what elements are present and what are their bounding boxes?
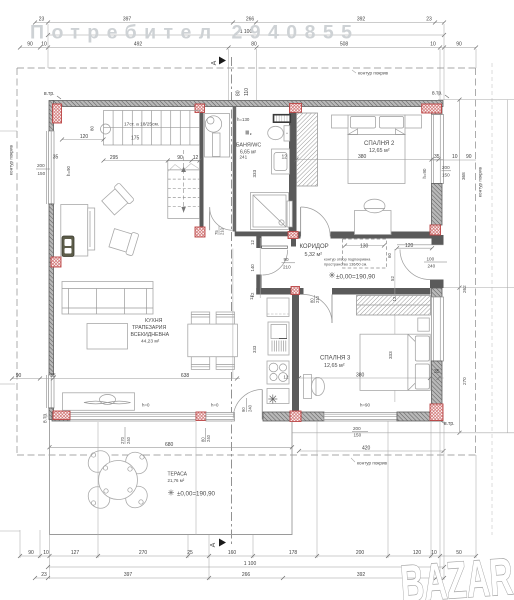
door bedroom2 arc xyxy=(301,207,331,237)
dimension row 2 top: 1 100 xyxy=(46,29,446,37)
svg-text:110: 110 xyxy=(244,88,250,96)
dining chairs xyxy=(191,312,234,369)
kitchen cooktop xyxy=(267,361,289,384)
svg-text:200: 200 xyxy=(37,163,45,168)
svg-text:±0,00=190,90: ±0,00=190,90 xyxy=(336,274,376,281)
svg-text:35: 35 xyxy=(434,369,440,375)
svg-text:200: 200 xyxy=(356,550,365,556)
dim line bedroom3 xyxy=(299,377,444,379)
svg-text:333: 333 xyxy=(252,345,257,353)
svg-text:80: 80 xyxy=(310,298,315,303)
neighbour grid lines right xyxy=(438,99,514,101)
column top stair xyxy=(195,104,205,113)
desk bedroom2 xyxy=(355,211,392,235)
attic opening dashed rect xyxy=(343,239,387,268)
asterisk mark xyxy=(268,395,277,404)
svg-text:23: 23 xyxy=(426,17,432,23)
wall exterior right: blocks xyxy=(432,107,443,115)
door storage leaf xyxy=(209,207,211,230)
svg-text:397: 397 xyxy=(124,572,133,578)
svg-text:СПАЛНЯ 3: СПАЛНЯ 3 xyxy=(320,356,351,362)
svg-text:380: 380 xyxy=(356,373,365,379)
svg-text:160: 160 xyxy=(228,550,237,556)
svg-text:150: 150 xyxy=(38,171,46,176)
svg-text:10: 10 xyxy=(452,154,458,160)
svg-text:12: 12 xyxy=(250,240,255,245)
door terrace leaf xyxy=(261,390,263,420)
svg-text:680: 680 xyxy=(165,442,174,448)
svg-text:ТРАПЕЗАРИЯ: ТРАПЕЗАРИЯ xyxy=(132,325,167,331)
armchair 2 xyxy=(108,227,139,256)
svg-text:h=0: h=0 xyxy=(211,403,219,408)
svg-text:в.тр.: в.тр. xyxy=(444,421,455,427)
corridor left wall lower piece xyxy=(256,275,261,295)
door bedroom3 leaf xyxy=(331,295,333,324)
svg-text:к: к xyxy=(250,131,252,136)
dimension row A bottom xyxy=(20,555,476,557)
window left lower (kitchen) xyxy=(47,375,55,408)
svg-text:90: 90 xyxy=(16,373,22,379)
svg-text:5,32 м²: 5,32 м² xyxy=(305,252,323,258)
svg-text:100: 100 xyxy=(427,257,435,262)
extension line xyxy=(232,249,234,379)
svg-text:210: 210 xyxy=(220,227,225,235)
120 dim xyxy=(397,247,432,249)
dimension row 3 top xyxy=(18,42,478,50)
shower xyxy=(251,193,289,230)
door bedroom2 leaf xyxy=(300,207,302,237)
wall bathroom left xyxy=(233,107,237,232)
window dim right: 200/150 xyxy=(442,165,452,178)
door kitchen-corridor leaf (open) xyxy=(262,246,288,248)
right vertical dim line xyxy=(459,100,461,433)
roof contour dashed rectangle xyxy=(17,68,476,455)
fireplace block xyxy=(61,205,88,257)
storage room shelf box xyxy=(205,114,230,158)
wall bathroom right / bedroom2 left xyxy=(289,107,297,232)
svg-text:333: 333 xyxy=(388,351,393,359)
bed bedroom2 xyxy=(348,115,405,184)
svg-text:270: 270 xyxy=(120,436,125,444)
svg-text:ВСЕКИДНЕВНА: ВСЕКИДНЕВНА xyxy=(131,332,170,338)
svg-text:270: 270 xyxy=(139,550,148,556)
wall bottom bedroom3 xyxy=(263,412,324,421)
svg-text:140: 140 xyxy=(250,264,255,272)
svg-text:90: 90 xyxy=(241,407,246,412)
column bedroom3 top-left xyxy=(291,287,300,295)
svg-text:контур отвор подпокривна: контур отвор подпокривна xyxy=(324,258,371,262)
svg-text:BAZAR: BAZAR xyxy=(399,548,514,600)
door label 80/210 rotated xyxy=(310,295,321,303)
stair flight upper xyxy=(104,111,200,146)
dims upper left xyxy=(62,139,104,141)
toilet xyxy=(284,126,290,141)
tv unit xyxy=(62,236,74,257)
svg-text:ТЕРАСА: ТЕРАСА xyxy=(168,472,188,478)
svg-text:в.тр.: в.тр. xyxy=(43,412,49,423)
wardrobe bedroom3 xyxy=(357,296,431,316)
svg-text:240: 240 xyxy=(428,264,436,269)
svg-text:266: 266 xyxy=(242,572,251,578)
dimension row B bottom: 1 100 xyxy=(48,566,444,568)
svg-text:в.тр.: в.тр. xyxy=(44,91,55,97)
bottom extension lines xyxy=(49,420,51,579)
door corridor-right arc xyxy=(400,250,430,280)
svg-text:270: 270 xyxy=(462,377,467,385)
blanket folds xyxy=(348,129,358,135)
svg-text:пространство 136/60 см.: пространство 136/60 см. xyxy=(324,263,367,267)
terrace chairs xyxy=(84,446,152,512)
armchair 1 xyxy=(100,183,134,217)
svg-text:420: 420 xyxy=(362,446,371,452)
stair return flight xyxy=(168,161,200,219)
svg-text:262: 262 xyxy=(462,285,467,293)
svg-text:44,23 м²: 44,23 м² xyxy=(141,339,160,345)
svg-text:21,76 м²: 21,76 м² xyxy=(168,478,185,483)
vanity sink xyxy=(272,149,290,174)
svg-text:80: 80 xyxy=(90,126,95,131)
chair bedroom2 xyxy=(364,199,385,213)
svg-text:12,65 м²: 12,65 м² xyxy=(324,363,345,369)
sofa xyxy=(62,282,153,315)
svg-text:12: 12 xyxy=(284,375,289,380)
nightstand left xyxy=(332,115,349,128)
kitchen oven unit xyxy=(268,322,289,355)
svg-text:80: 80 xyxy=(201,437,206,442)
svg-text:200: 200 xyxy=(353,426,361,431)
door label 75/210 xyxy=(214,226,225,235)
window bedroom2 right xyxy=(432,115,444,184)
svg-text:1 100: 1 100 xyxy=(244,561,257,567)
wardrobe bedroom2 xyxy=(297,113,318,186)
vk icon xyxy=(246,131,250,135)
door label 90/210 xyxy=(282,257,296,270)
chair bedroom3 xyxy=(312,378,325,396)
wall exterior top xyxy=(52,101,443,107)
window left upper xyxy=(47,131,55,204)
watermark BAZAR bottom right xyxy=(399,548,514,600)
window kitchen bottom xyxy=(70,413,196,422)
wall stairwell right xyxy=(200,107,204,238)
wall bedroom2 bottom xyxy=(297,232,301,239)
svg-text:КУХНЯ: КУХНЯ xyxy=(145,318,163,324)
terrace table xyxy=(99,461,138,500)
svg-text:СПАЛНЯ 2: СПАЛНЯ 2 xyxy=(364,141,395,147)
kitchen counter with sink xyxy=(63,393,135,411)
420 dim xyxy=(299,450,444,452)
wall bathroom bottom / corridor top xyxy=(235,232,290,237)
corridor left wall upper piece xyxy=(256,236,261,248)
svg-text:90: 90 xyxy=(456,42,462,48)
window bedroom3 bottom xyxy=(324,413,397,422)
section marker A bottom xyxy=(210,539,226,548)
boiler circle xyxy=(205,116,221,132)
svg-text:25: 25 xyxy=(187,550,193,556)
door opening right (corridor exit) xyxy=(397,244,444,246)
svg-text:90: 90 xyxy=(466,154,472,160)
svg-text:35: 35 xyxy=(434,154,440,160)
svg-text:БАНЯ/WC: БАНЯ/WC xyxy=(236,143,261,149)
column top bath/bedroom2 xyxy=(290,104,302,113)
svg-text:120: 120 xyxy=(80,134,89,140)
column bedroom3 bottom-left xyxy=(290,411,301,422)
interior dim line xyxy=(12,378,240,380)
wall exterior left middle xyxy=(49,204,54,375)
dim line bedroom2 xyxy=(297,159,444,161)
door kitchen-corridor arc xyxy=(262,250,287,275)
nightstand bedroom3 xyxy=(418,318,430,331)
wall bedroom3 top xyxy=(256,288,303,295)
svg-text:80: 80 xyxy=(236,90,242,96)
svg-text:35: 35 xyxy=(53,155,59,161)
wall exterior left upper xyxy=(49,101,54,132)
desk bedroom3 xyxy=(304,375,312,399)
storage cabinet xyxy=(213,133,221,157)
svg-text:130: 130 xyxy=(360,244,369,250)
window dims bottom: 200/150 xyxy=(352,426,368,438)
dining table xyxy=(188,324,238,357)
stair direction line xyxy=(183,150,185,215)
svg-text:12,65 м²: 12,65 м² xyxy=(369,148,390,154)
svg-text:638: 638 xyxy=(181,373,190,379)
column top-right xyxy=(422,104,442,113)
terrace outline xyxy=(50,420,293,535)
door storage arc xyxy=(210,207,233,230)
svg-text:240: 240 xyxy=(248,404,253,412)
svg-text:35: 35 xyxy=(50,373,56,379)
bed bedroom3 xyxy=(360,334,430,390)
wall bottom kitchen xyxy=(52,412,70,421)
kitchen fridge xyxy=(267,298,289,317)
svg-text:A: A xyxy=(211,60,218,65)
svg-text:12: 12 xyxy=(249,295,254,300)
svg-text:h=130: h=130 xyxy=(237,117,250,122)
door bedroom3 arc xyxy=(304,295,333,324)
wall stub below bathroom corner xyxy=(291,239,296,247)
svg-text:295: 295 xyxy=(110,155,119,161)
svg-text:120: 120 xyxy=(405,243,414,249)
left window dims xyxy=(36,163,50,176)
svg-text:10: 10 xyxy=(430,42,436,48)
column left middle xyxy=(51,257,61,267)
svg-text:90: 90 xyxy=(177,155,183,161)
svg-text:12: 12 xyxy=(282,155,288,161)
column top-left xyxy=(53,104,62,123)
svg-text:12: 12 xyxy=(392,296,397,301)
svg-text:210: 210 xyxy=(315,295,320,303)
door terrace arc xyxy=(233,390,262,419)
wall exterior left lowest xyxy=(49,408,54,420)
svg-text:h=90: h=90 xyxy=(66,166,71,176)
svg-text:12: 12 xyxy=(193,155,199,161)
svg-text:контур покрив: контур покрив xyxy=(357,461,388,466)
svg-text:241: 241 xyxy=(240,155,248,160)
nightstand right xyxy=(405,115,422,128)
svg-text:90: 90 xyxy=(28,550,34,556)
section marker A top xyxy=(211,57,226,66)
svg-text:175: 175 xyxy=(131,136,140,142)
stair newel circle xyxy=(101,124,111,134)
svg-text:240: 240 xyxy=(126,436,131,444)
svg-text:75: 75 xyxy=(214,230,219,235)
svg-text:90: 90 xyxy=(284,257,290,262)
radiator xyxy=(274,115,291,123)
svg-text:в.тр.: в.тр. xyxy=(432,91,443,97)
pillows xyxy=(351,117,376,129)
svg-text:200: 200 xyxy=(442,165,450,170)
svg-text:150: 150 xyxy=(354,433,362,438)
dimension row C bottom xyxy=(35,577,444,579)
svg-text:150: 150 xyxy=(442,173,450,178)
svg-text:23: 23 xyxy=(41,572,47,578)
svg-text:h=90: h=90 xyxy=(422,168,427,178)
svg-text:контур покрив: контур покрив xyxy=(9,144,14,175)
svg-text:h=90: h=90 xyxy=(360,403,370,408)
svg-text:контур покрив: контур покрив xyxy=(358,71,389,76)
column bedroom3 bottom-right xyxy=(430,404,443,421)
column bottom-left xyxy=(53,411,70,420)
column stairwell bottom xyxy=(195,227,205,237)
svg-text:333: 333 xyxy=(252,169,257,177)
svg-text:60: 60 xyxy=(387,253,392,258)
extension lines top xyxy=(47,24,49,68)
svg-text:10: 10 xyxy=(43,550,49,556)
svg-text:КОРИДОР: КОРИДОР xyxy=(300,244,329,250)
svg-text:A: A xyxy=(210,542,217,547)
svg-text:210: 210 xyxy=(283,265,291,270)
window bedroom3 right xyxy=(432,297,444,361)
door label 100/240 xyxy=(424,257,447,269)
window dims rotated below kitchen xyxy=(120,427,131,444)
section line A-A xyxy=(231,57,233,545)
680 dim xyxy=(50,446,293,448)
svg-text:17ст. а 18/25см.: 17ст. а 18/25см. xyxy=(124,122,159,128)
svg-text:380: 380 xyxy=(358,154,367,160)
coffee table xyxy=(87,324,128,350)
wall bedroom3 left xyxy=(292,295,299,412)
svg-text:368: 368 xyxy=(461,172,466,180)
column bathroom bottom right xyxy=(288,232,298,239)
svg-text:контур покрив: контур покрив xyxy=(478,166,483,197)
svg-text:Потребител 2940855: Потребител 2940855 xyxy=(30,22,352,44)
svg-text:392: 392 xyxy=(357,17,366,23)
glass strip xyxy=(287,201,293,227)
kitchen dishwasher xyxy=(267,389,289,404)
svg-text:52: 52 xyxy=(390,276,395,281)
dimension row 1 top xyxy=(33,17,446,25)
column right middle pier xyxy=(430,225,441,235)
svg-text:240: 240 xyxy=(206,434,211,442)
svg-text:127: 127 xyxy=(71,550,80,556)
svg-text:392: 392 xyxy=(357,572,366,578)
svg-text:h=0: h=0 xyxy=(142,403,150,408)
svg-text:178: 178 xyxy=(289,550,298,556)
